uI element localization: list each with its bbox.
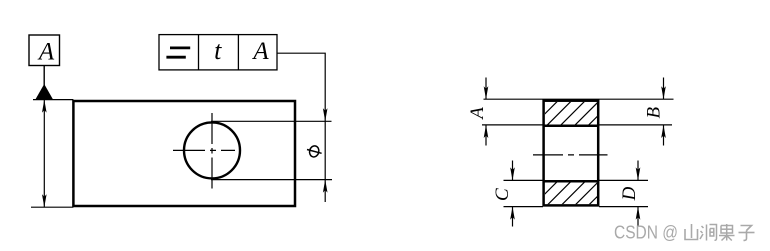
phi dimension up arrowhead at bottom extension line <box>323 180 328 193</box>
dimension C arrowheads <box>510 167 515 180</box>
svg-text:CSDN @: CSDN @ <box>614 222 678 242</box>
svg-text:A: A <box>37 38 55 65</box>
hatching top section <box>533 100 627 126</box>
left height bottom extension line <box>31 206 73 208</box>
svg-text:A: A <box>467 107 488 121</box>
vertical centerline <box>211 113 213 190</box>
horizontal centerline <box>173 149 235 151</box>
part outline rectangle (left view) <box>73 101 295 206</box>
hole bottom extension line <box>211 179 332 181</box>
datum box A <box>29 35 60 66</box>
dimension D lines <box>637 161 639 181</box>
FCF divider 2 <box>237 35 239 70</box>
hatching bottom section <box>534 180 627 205</box>
section outline rectangle <box>544 101 599 206</box>
left height dimension line <box>43 100 45 208</box>
svg-text:C: C <box>492 188 513 201</box>
phi label (drawn) <box>307 145 322 158</box>
leader arrowhead down at top extension line <box>323 108 328 121</box>
watermark hanzi zi <box>739 226 755 241</box>
hole circle <box>184 122 240 178</box>
feature control frame box <box>159 35 277 70</box>
watermark hanzi jian <box>700 225 717 241</box>
left dimension up arrowhead <box>42 100 47 113</box>
svg-text:A: A <box>251 38 269 65</box>
dimension C lines <box>512 161 514 181</box>
FCF divider 1 <box>198 35 200 70</box>
section centerline <box>533 154 608 156</box>
extension line bottom left (y=206.6) <box>504 206 544 208</box>
FCF symbol: two parallel bars <box>166 48 190 57</box>
watermark hanzi shan <box>685 224 698 240</box>
leader wire from FCF <box>277 53 325 202</box>
dimension B arrowheads <box>661 86 666 99</box>
extension line upper-mid right <box>599 124 672 126</box>
dimension B lines <box>663 78 665 100</box>
dimension A lines <box>485 78 487 100</box>
left height top extension line <box>33 99 73 101</box>
hole top extension line <box>211 120 332 122</box>
svg-text:B: B <box>644 107 665 119</box>
svg-text:D: D <box>619 186 640 201</box>
left dimension down arrowhead <box>42 194 47 207</box>
watermark hanzi guo <box>719 224 735 241</box>
dimension D arrowheads <box>636 167 641 180</box>
top hatch bottom edge <box>544 124 599 127</box>
extension line top (y=99.2) <box>484 98 674 100</box>
extension line lower-mid right <box>599 179 648 181</box>
dimension A arrowheads <box>484 86 489 99</box>
bottom hatch top edge <box>544 180 599 183</box>
datum stem wire <box>43 66 45 88</box>
extension line upper-mid left (y=124.9) <box>482 124 543 126</box>
extension line lower-mid left (y=180.4) <box>504 179 544 181</box>
svg-text:t: t <box>214 36 222 65</box>
extension line bottom right <box>599 206 648 208</box>
datum triangle (filled) <box>35 84 53 100</box>
